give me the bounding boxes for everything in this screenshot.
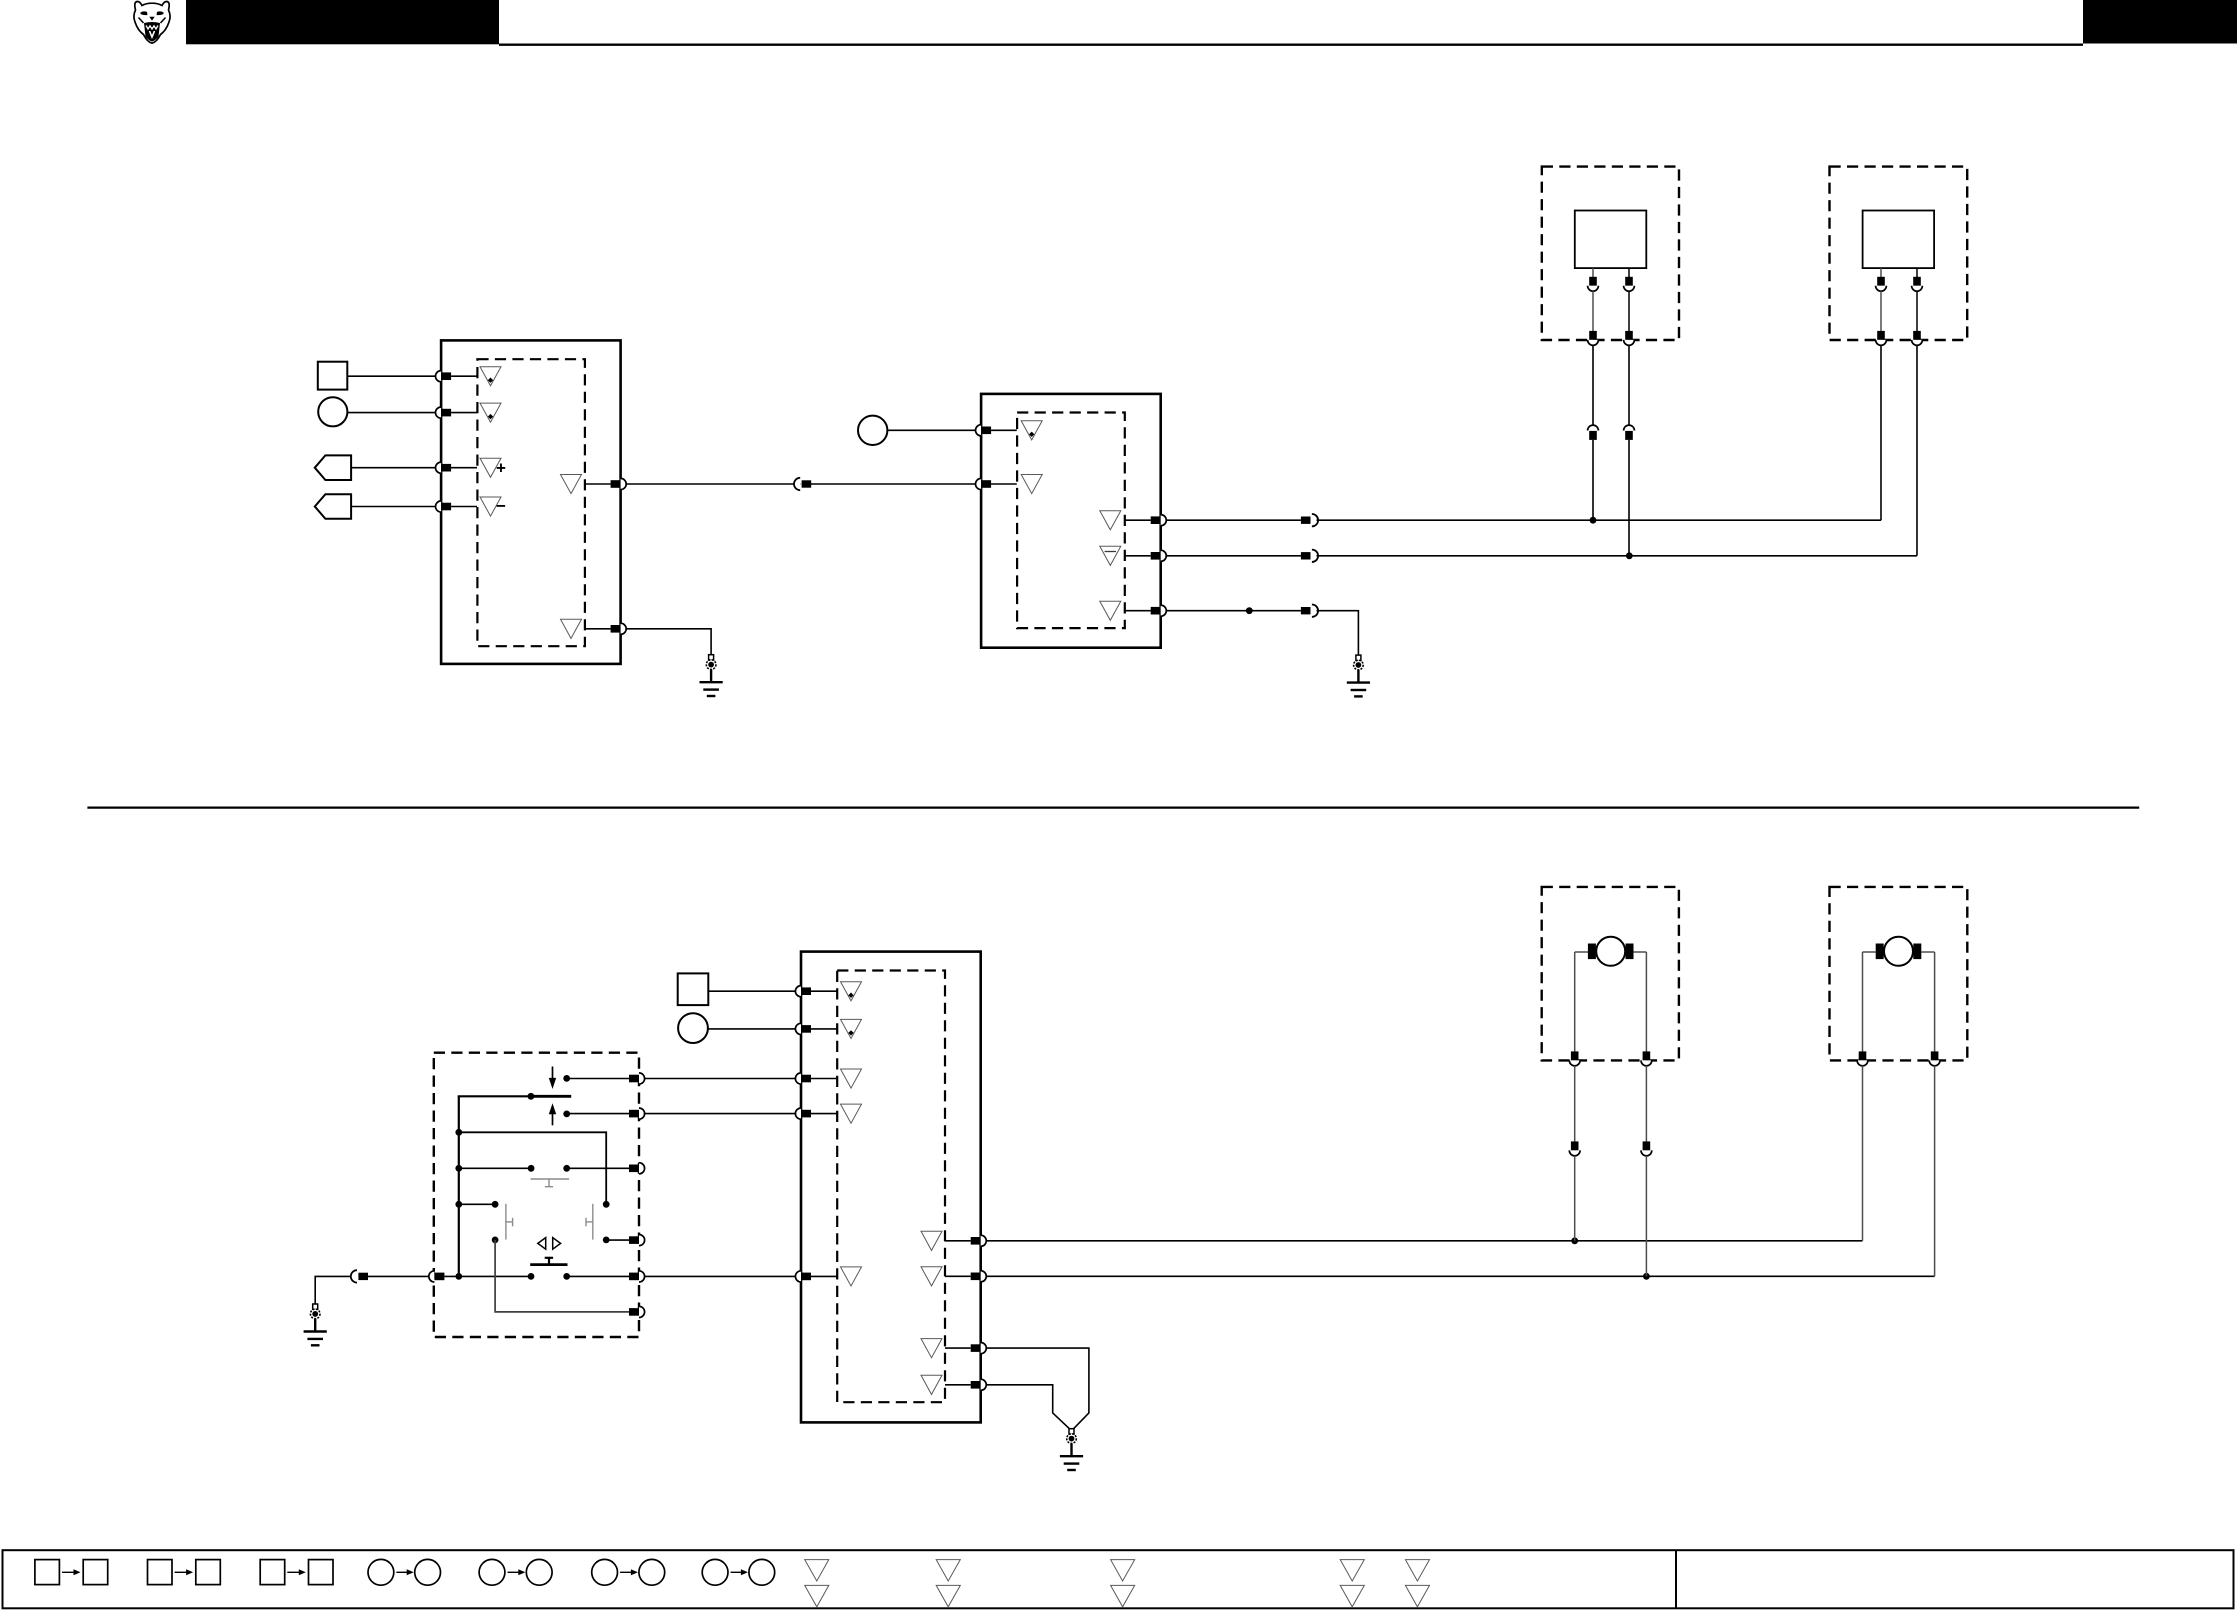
wire M3 pin6 to mirror motors (upper run) bbox=[986, 1240, 1862, 1242]
legend arrow 6 bbox=[620, 1569, 638, 1575]
M3 pin 1 internal stub bbox=[811, 990, 837, 992]
junction node lower run bbox=[1643, 1273, 1650, 1280]
wire M3 pin7 to mirror motors (lower run) bbox=[986, 1275, 1934, 1277]
MOT1 lead right bbox=[1633, 951, 1646, 953]
wire code triangle (M2 input 2) bbox=[1021, 475, 1042, 494]
MA2 actuator block bbox=[1863, 211, 1935, 269]
wire MA1 pin2 down to connector C6 bbox=[1628, 345, 1630, 425]
header title bar (left) bbox=[186, 0, 499, 44]
separator line between upper and lower diagrams bbox=[87, 806, 2139, 808]
fold switch actuator bar (grey) bbox=[531, 1179, 570, 1187]
wire SP1 pin5 to M3 pin5 bbox=[645, 1275, 796, 1277]
wire left selector to SP1 pin 6 bbox=[495, 1240, 629, 1312]
legend triangle pair 4 bbox=[1340, 1560, 1364, 1607]
module M3 internal dashed boundary bbox=[837, 971, 945, 1403]
wire L1 to M1 pin 2 bbox=[347, 412, 435, 414]
MA2 internal pin 2 bbox=[1912, 277, 1923, 291]
MA1 actuator block bbox=[1575, 211, 1647, 269]
wire L2 to M2 pin 1 bbox=[887, 429, 975, 431]
legend connector circles pair 1 bbox=[368, 1559, 441, 1585]
wire C9 to upper run bbox=[1574, 1156, 1576, 1241]
SP1 pin 5 bbox=[629, 1271, 645, 1282]
bus top feed to up/down switch bbox=[458, 1095, 531, 1097]
M1 output pin 6 internal stub bbox=[585, 628, 611, 630]
M3 pin 2 internal stub bbox=[811, 1028, 837, 1030]
wire code triangle (M1 output bottom) bbox=[561, 619, 582, 638]
MA2 actuator lead 1 bbox=[1880, 268, 1882, 278]
right selector bottom contact node bbox=[603, 1237, 610, 1244]
wire M1 pin5 to inline connector C1 bbox=[626, 483, 800, 485]
MA1 housing pin 1 bbox=[1588, 331, 1599, 345]
SP1 pin 2 bbox=[629, 1108, 645, 1119]
ground G1 bbox=[700, 655, 723, 696]
up/down switch blade bbox=[531, 1095, 571, 1098]
M2 pin 1 internal stub bbox=[991, 429, 1017, 431]
wire MM1 pin1 to connector C9 bbox=[1574, 1066, 1576, 1142]
M3 pin 2 bbox=[795, 1023, 811, 1034]
M2 output pin 3 internal stub bbox=[1125, 519, 1151, 521]
M1 pin 1 bbox=[436, 371, 452, 382]
legend triangle pair 2 bbox=[936, 1560, 960, 1607]
inline connector C2 bbox=[1301, 514, 1318, 526]
down arrow actuator bbox=[549, 1067, 556, 1090]
wire C4 to ground G2 bbox=[1317, 611, 1359, 656]
MM1 internal wire left bbox=[1574, 952, 1576, 1052]
wire C8 to bus junction bbox=[444, 1275, 531, 1277]
wire bus to left selector top contact bbox=[459, 1203, 495, 1205]
left/right switch contact left node bbox=[528, 1273, 535, 1280]
wire MA2 pin2 down to y556 run bbox=[1916, 345, 1918, 555]
bus tap to right selector bbox=[455, 1129, 462, 1136]
MA1 internal pin 2 bbox=[1624, 277, 1635, 291]
up arrow actuator bbox=[549, 1103, 556, 1125]
MM1 housing pin 1 bbox=[1569, 1051, 1580, 1065]
lamp symbol L1 (circle) bbox=[318, 397, 347, 426]
fold switch contact right node bbox=[563, 1165, 570, 1172]
module M3 outer box (door/mirror ECU) bbox=[801, 952, 981, 1423]
wire code triangle (M2 output 2, minus) bbox=[1100, 546, 1121, 565]
wire C2 to mirror assembly (horizontal run) bbox=[1317, 519, 1882, 521]
inline connector C3 bbox=[1301, 550, 1318, 562]
wire C10 to lower run bbox=[1645, 1156, 1647, 1277]
switchpack feed connector C8 bbox=[429, 1271, 445, 1282]
bus tap to left selector bbox=[455, 1201, 462, 1208]
bus junction node bbox=[455, 1273, 462, 1280]
motor MOT2 bbox=[1876, 937, 1922, 966]
wire bus to right selector column bbox=[459, 1132, 606, 1204]
switch symbol S2 (square) bbox=[678, 973, 709, 1005]
wire bus to fold switch contact bbox=[459, 1167, 531, 1169]
lamp symbol L2 (circle) bbox=[858, 416, 887, 445]
M3 pin 1 bbox=[795, 986, 811, 997]
left/right switch blade bbox=[530, 1263, 567, 1266]
M1 pin 2 internal stub bbox=[451, 412, 477, 414]
wire contact to SP1 pin 3 bbox=[567, 1167, 629, 1169]
supply terminal A1 (pentagon) bbox=[315, 455, 351, 480]
wire M1 pin6 to ground G1 bbox=[626, 629, 711, 655]
wire code triangle (M3 input 5) bbox=[841, 1267, 862, 1286]
wire contact to SP1 pin 5 bbox=[567, 1275, 629, 1277]
left/right switch actuator tee bbox=[545, 1258, 553, 1265]
M3 pin 4 internal stub bbox=[811, 1113, 837, 1115]
M3 pin 5 bbox=[795, 1271, 811, 1282]
left selector bottom contact node bbox=[492, 1237, 499, 1244]
inline connector C9 bbox=[1569, 1141, 1580, 1155]
legend divider bbox=[1675, 1550, 1677, 1608]
MM2 internal wire left bbox=[1862, 952, 1864, 1052]
left/right switch contact right node bbox=[563, 1273, 570, 1280]
M1 pin 6 bbox=[611, 623, 627, 634]
M3 pin 9 bbox=[971, 1379, 987, 1390]
ground G4 bbox=[1060, 1429, 1083, 1470]
MM2 housing pin 1 bbox=[1857, 1051, 1868, 1065]
module M1 internal dashed boundary bbox=[477, 359, 585, 646]
MA2 internal pin 1 bbox=[1876, 277, 1887, 291]
MOT1 lead left bbox=[1575, 951, 1589, 953]
mirror motor assembly MM1 dashed housing bbox=[1542, 887, 1679, 1061]
module M2 internal dashed boundary bbox=[1017, 413, 1125, 629]
M3 pin 8 bbox=[971, 1343, 987, 1354]
M3 pin 7 bbox=[971, 1271, 987, 1282]
wire MM1 pin2 to connector C10 bbox=[1645, 1066, 1647, 1142]
wire code triangle (M3 input 1) bbox=[841, 982, 862, 1001]
MA2 housing pin 1 bbox=[1876, 331, 1887, 345]
legend connector circles pair 2 bbox=[479, 1559, 552, 1585]
wire M2 pin5 toward splice bbox=[1166, 610, 1301, 612]
wire code triangle (M3 input 2) bbox=[841, 1019, 862, 1038]
wire M2 pin4 to connector C3 bbox=[1166, 555, 1301, 557]
M3 pin 4 bbox=[795, 1108, 811, 1119]
wire right selector to SP1 pin 4 bbox=[606, 1239, 629, 1241]
legend connector squares pair 3 bbox=[260, 1560, 333, 1585]
M3 pin 6 bbox=[971, 1235, 987, 1246]
wire code triangle (M3 input 3) bbox=[841, 1069, 862, 1088]
M1 pin 2 bbox=[436, 407, 452, 418]
supply terminal A2 (pentagon) bbox=[315, 494, 351, 519]
inline connector C1 bbox=[794, 478, 811, 490]
up/down switch contact up node bbox=[563, 1075, 570, 1082]
mirror assembly MA2 dashed housing (top right) bbox=[1830, 167, 1968, 340]
wire C1 to M2 pin 2 bbox=[811, 483, 976, 485]
module M2 outer box (mirror control module) bbox=[981, 394, 1161, 648]
M2 pin 4 bbox=[1151, 550, 1167, 561]
wire C7 to switchpack connector bbox=[367, 1275, 429, 1277]
right selector wiper (grey) bbox=[586, 1204, 593, 1240]
MA1 internal wire 1 bbox=[1592, 291, 1594, 331]
M2 output pin 4 internal stub bbox=[1125, 555, 1151, 557]
M3 output pin 9 internal stub bbox=[945, 1384, 971, 1386]
M1 pin 4 internal stub bbox=[451, 506, 477, 508]
M1 pin 1 internal stub bbox=[451, 375, 477, 377]
module M1 outer box (driver door module) bbox=[441, 340, 620, 664]
MA2 actuator lead 2 bbox=[1916, 268, 1918, 278]
MA1 actuator lead 1 bbox=[1592, 268, 1594, 278]
fold switch contact left node bbox=[528, 1165, 535, 1172]
left selector top contact node bbox=[492, 1201, 499, 1208]
MM2 housing pin 2 bbox=[1929, 1051, 1940, 1065]
MA1 internal wire 2 bbox=[1628, 291, 1630, 331]
MM1 housing pin 2 bbox=[1641, 1051, 1652, 1065]
SP1 pin 6 bbox=[629, 1306, 645, 1317]
MA1 actuator lead 2 bbox=[1628, 268, 1630, 278]
inline connector C4 bbox=[1301, 605, 1318, 617]
motor MOT1 bbox=[1588, 937, 1634, 966]
wire G3 up to main feed bbox=[315, 1276, 352, 1304]
legend arrow 5 bbox=[508, 1569, 526, 1575]
wire code triangle (M1 input 3, battery +) bbox=[480, 458, 501, 477]
MA1 internal pin 1 bbox=[1588, 277, 1599, 291]
wire code triangle (M3 output 1) bbox=[921, 1231, 942, 1250]
M1 output pin 5 internal stub bbox=[585, 483, 611, 485]
wire A1 to M1 pin 3 bbox=[351, 467, 435, 469]
M3 output pin 7 internal stub bbox=[945, 1275, 971, 1277]
M3 output pin 8 internal stub bbox=[945, 1347, 971, 1349]
legend arrow 7 bbox=[731, 1569, 748, 1575]
left/right joystick arrows bbox=[538, 1238, 561, 1250]
MOT2 lead right bbox=[1921, 951, 1935, 953]
wire S2 to M3 pin 1 bbox=[708, 990, 795, 992]
wire C3 to mirror assembly (horizontal run) bbox=[1317, 555, 1918, 557]
M1 pin 3 bbox=[436, 462, 452, 473]
wire code triangle (M1 input 2) bbox=[480, 403, 501, 422]
wire M3 pin9 to ground G4 bbox=[986, 1385, 1069, 1429]
MM1 internal wire right bbox=[1645, 952, 1647, 1052]
wire L3 to M3 pin 2 bbox=[708, 1028, 796, 1030]
wire code triangle (M2 input 1) bbox=[1021, 421, 1042, 440]
wire A2 to M1 pin 4 bbox=[351, 506, 435, 508]
wire contact to SP1 pin 2 bbox=[567, 1113, 629, 1115]
M2 pin 1 bbox=[976, 425, 992, 436]
legend border bbox=[3, 1550, 2234, 1608]
legend arrow 2 bbox=[175, 1569, 194, 1575]
MA1 housing pin 2 bbox=[1624, 331, 1635, 345]
wire MM2 pin1 to upper run bbox=[1862, 1066, 1864, 1241]
M3 output pin 6 internal stub bbox=[945, 1240, 971, 1242]
MM2 internal wire right bbox=[1934, 952, 1936, 1052]
SP1 pin 4 bbox=[629, 1235, 645, 1246]
wire SP1 pin2 to M3 pin4 bbox=[645, 1113, 796, 1115]
jaguar logo bbox=[134, 2, 170, 44]
ground G3 bbox=[304, 1304, 327, 1345]
M3 pin 5 internal stub bbox=[811, 1275, 837, 1277]
M1 pin 5 bbox=[611, 478, 627, 489]
legend connector squares pair 2 bbox=[148, 1560, 221, 1585]
wire C6 down to y556 run bbox=[1628, 440, 1630, 556]
wire code triangle (M3 output 4) bbox=[921, 1375, 942, 1394]
wire contact to SP1 pin 1 bbox=[567, 1078, 629, 1080]
wire code triangle (M3 output 2) bbox=[921, 1267, 942, 1286]
splice node bbox=[1246, 607, 1253, 614]
inline connector C7 bbox=[351, 1270, 368, 1282]
up/down switch contact down node bbox=[563, 1111, 570, 1118]
wire MA1 pin1 down to connector C5 bbox=[1592, 345, 1594, 425]
right selector top contact node bbox=[603, 1201, 610, 1208]
wire code triangle (M1 output mid) bbox=[561, 475, 582, 494]
wire MA2 pin1 down to y520 run bbox=[1880, 345, 1882, 520]
legend connector circles pair 4 bbox=[702, 1559, 775, 1585]
M2 pin 5 bbox=[1151, 605, 1167, 616]
inline connector C10 bbox=[1641, 1141, 1652, 1155]
header bar (right corner block) bbox=[2083, 0, 2237, 44]
wire code triangle (M2 output 1) bbox=[1100, 511, 1121, 530]
wire code triangle (M3 input 4) bbox=[841, 1104, 862, 1123]
wire code triangle (M3 output 3) bbox=[921, 1339, 942, 1358]
wire M3 pin8 to ground G4 bbox=[986, 1348, 1089, 1429]
legend connector squares pair 1 bbox=[35, 1560, 108, 1585]
M3 pin 3 internal stub bbox=[811, 1078, 837, 1080]
legend triangle pair 3 bbox=[1111, 1560, 1135, 1607]
wire M2 pin3 to connector C2 bbox=[1166, 519, 1301, 521]
SP1 pin 1 bbox=[629, 1073, 645, 1084]
M2 pin 2 internal stub bbox=[991, 483, 1017, 485]
M3 pin 3 bbox=[795, 1073, 811, 1084]
inline connector C6 bbox=[1624, 425, 1635, 440]
M2 pin 2 bbox=[976, 478, 992, 489]
MA2 housing pin 2 bbox=[1912, 331, 1923, 345]
M1 pin 4 bbox=[436, 501, 452, 512]
lamp symbol L3 (circle) bbox=[678, 1013, 708, 1043]
svg-text:+: + bbox=[496, 459, 506, 478]
wire C5 down to y520 run bbox=[1592, 440, 1594, 520]
wire SP1 pin1 to M3 pin3 bbox=[645, 1078, 796, 1080]
junction node on y520 run bbox=[1590, 517, 1597, 524]
switchpack feed bus bbox=[458, 1096, 460, 1276]
mirror assembly MA1 dashed housing (top left) bbox=[1542, 167, 1679, 340]
svg-text:−: − bbox=[496, 497, 506, 516]
legend triangle pair 1 bbox=[805, 1560, 829, 1607]
legend arrow 1 bbox=[62, 1569, 81, 1575]
wire S1 to M1 pin 1 bbox=[347, 375, 435, 377]
legend arrow 3 bbox=[287, 1569, 306, 1575]
mirror switchpack SP1 dashed housing bbox=[434, 1053, 639, 1337]
inline connector C5 bbox=[1588, 425, 1599, 440]
switch symbol S1 (square) bbox=[318, 362, 348, 390]
wire code triangle (M2 output 3) bbox=[1100, 601, 1121, 620]
legend connector circles pair 3 bbox=[592, 1559, 665, 1585]
wire code triangle (M1 input 1) bbox=[480, 367, 501, 386]
ground G2 bbox=[1347, 655, 1370, 696]
wire code triangle (M1 input 4, ground -) bbox=[480, 497, 501, 516]
M2 output pin 5 internal stub bbox=[1125, 610, 1151, 612]
mirror motor assembly MM2 dashed housing bbox=[1830, 887, 1968, 1061]
bus tap to fold switch bbox=[455, 1165, 462, 1172]
MA2 internal wire 1 bbox=[1880, 291, 1882, 331]
junction node on y556 run bbox=[1626, 552, 1633, 559]
legend triangle pair 5 bbox=[1405, 1560, 1429, 1607]
legend arrow 4 bbox=[396, 1569, 413, 1575]
M1 pin 3 internal stub bbox=[451, 467, 477, 469]
junction node upper run bbox=[1571, 1237, 1578, 1244]
MA2 internal wire 2 bbox=[1916, 291, 1918, 331]
SP1 pin 3 bbox=[629, 1163, 645, 1174]
M2 pin 3 bbox=[1151, 515, 1167, 526]
MOT2 lead left bbox=[1863, 951, 1877, 953]
header rule line bbox=[499, 44, 2083, 46]
wire MM2 pin2 to lower run bbox=[1934, 1066, 1936, 1277]
left selector wiper (grey) bbox=[506, 1204, 513, 1240]
up/down switch blade contact node bbox=[528, 1093, 535, 1100]
